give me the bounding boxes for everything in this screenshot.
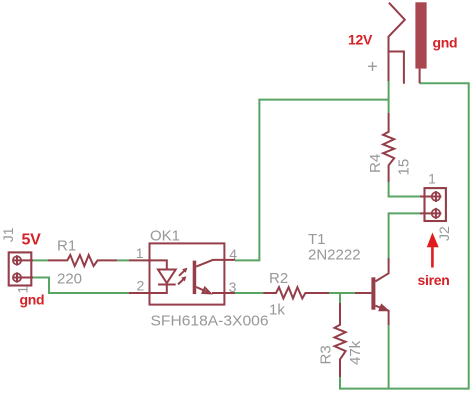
svg-text:SFH618A-3X006: SFH618A-3X006 [151, 313, 269, 330]
svg-text:R2: R2 [269, 270, 288, 287]
svg-text:47k: 47k [347, 340, 364, 365]
svg-text:+: + [367, 56, 378, 76]
svg-text:5V: 5V [22, 232, 42, 249]
svg-text:1: 1 [136, 245, 144, 261]
svg-text:T1: T1 [308, 231, 326, 248]
svg-text:2: 2 [137, 278, 145, 294]
svg-text:1: 1 [428, 171, 436, 187]
svg-text:J1: J1 [0, 227, 16, 242]
svg-text:220: 220 [57, 271, 82, 288]
svg-text:1k: 1k [269, 302, 285, 319]
svg-text:R4: R4 [367, 154, 384, 173]
svg-text:gnd: gnd [433, 34, 458, 50]
svg-text:R1: R1 [57, 238, 76, 255]
svg-text:12V: 12V [348, 32, 373, 48]
svg-text:gnd: gnd [20, 292, 45, 308]
svg-text:R3: R3 [318, 345, 335, 364]
svg-text:3: 3 [229, 279, 237, 295]
svg-text:15: 15 [396, 159, 413, 176]
svg-text:2N2222: 2N2222 [308, 247, 361, 264]
svg-text:J2: J2 [436, 226, 452, 241]
svg-text:OK1: OK1 [150, 227, 180, 244]
svg-text:siren: siren [418, 272, 450, 288]
svg-text:4: 4 [229, 246, 237, 262]
